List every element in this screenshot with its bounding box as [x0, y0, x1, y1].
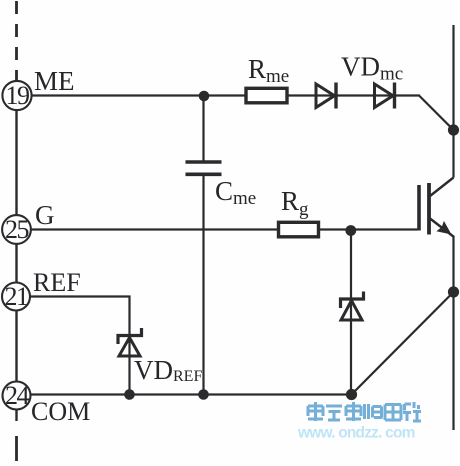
transistor IGBT collector lead: [430, 178, 454, 197]
svg-text:COM: COM: [31, 397, 90, 426]
wire Cme branch lower: [202, 175, 204, 395]
transistor IGBT gate bar: [417, 185, 421, 231]
svg-text:REF: REF: [33, 268, 81, 297]
svg-text:www. ondzz. com: www. ondzz. com: [297, 425, 415, 442]
junction node on ME at Cme: [199, 91, 210, 102]
transistor IGBT body bar: [427, 183, 431, 235]
wire Cme branch upper: [202, 96, 204, 162]
watermark site name: [308, 402, 421, 421]
svg-text:Cme: Cme: [215, 176, 256, 209]
wire REF row: [17, 297, 130, 336]
wire ME row: [17, 94, 420, 96]
wire COM row: [17, 393, 352, 395]
wire VDref to COM: [128, 337, 130, 395]
transistor IGBT emitter arrow: [436, 221, 451, 235]
dashed bus line top: [15, 1, 18, 81]
left rail wire: [15, 81, 17, 421]
terminal pin 19: [2, 81, 31, 110]
terminal pin 24: [3, 382, 31, 410]
junction node COM at VDref: [124, 389, 135, 400]
wire collector rail: [452, 25, 454, 178]
junction node COM at zener: [346, 389, 357, 400]
terminal pin 21: [2, 283, 30, 311]
resistor Rme: [246, 88, 287, 103]
dashed bus line bottom: [15, 436, 18, 461]
svg-text:25: 25: [5, 215, 29, 244]
zener diode gate clamp: [341, 292, 364, 321]
svg-text:G: G: [35, 200, 55, 230]
svg-text:VDmc: VDmc: [341, 52, 403, 85]
junction node COM at Cme: [198, 389, 209, 400]
svg-text:Rme: Rme: [248, 54, 289, 87]
wire G row: [17, 228, 418, 230]
junction node on G at zener: [345, 225, 356, 236]
svg-text:21: 21: [5, 282, 29, 311]
capacitor Cme: [186, 162, 222, 174]
wire emitter to COM diagonal: [352, 292, 454, 395]
junction node emitter: [448, 286, 459, 297]
terminal pin 25: [2, 215, 31, 244]
svg-text:ME: ME: [34, 66, 75, 96]
diode VDmc first: [316, 83, 336, 109]
wire ME to collector diagonal: [419, 96, 454, 131]
svg-text:Rg: Rg: [281, 186, 309, 220]
svg-text:19: 19: [6, 81, 30, 110]
zener diode VDref: [118, 328, 142, 356]
transistor IGBT emitter lead: [430, 219, 454, 238]
svg-text:VDREF: VDREF: [134, 355, 202, 385]
wire zener branch: [350, 230, 352, 395]
junction node collector: [448, 124, 459, 135]
svg-text:24: 24: [5, 381, 30, 410]
resistor Rg: [279, 222, 319, 237]
wire emitter vertical: [452, 236, 454, 430]
diode VDmc second: [375, 83, 395, 109]
